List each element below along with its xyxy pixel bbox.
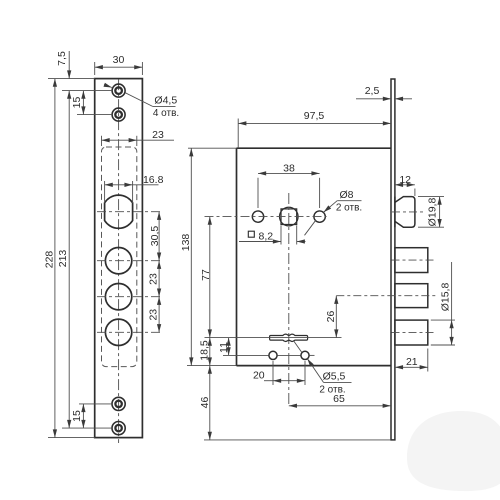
svg-text:23: 23 (152, 129, 164, 141)
svg-text:15: 15 (71, 97, 83, 109)
svg-text:Ø5,5: Ø5,5 (323, 371, 346, 383)
svg-text:97,5: 97,5 (304, 110, 325, 122)
svg-text:30: 30 (113, 54, 125, 66)
svg-text:21: 21 (406, 356, 418, 368)
svg-text:Ø15,8: Ø15,8 (439, 283, 451, 312)
svg-text:12: 12 (399, 174, 411, 186)
svg-text:4 отв.: 4 отв. (153, 108, 179, 119)
svg-text:30,5: 30,5 (149, 226, 161, 247)
svg-text:15: 15 (71, 410, 83, 422)
svg-text:2,5: 2,5 (365, 85, 380, 97)
svg-text:Ø8: Ø8 (339, 189, 353, 201)
svg-text:228: 228 (44, 251, 56, 269)
svg-text:11: 11 (218, 342, 230, 353)
svg-text:18,5: 18,5 (198, 340, 210, 361)
svg-text:38: 38 (283, 163, 295, 175)
svg-text:Ø19,8: Ø19,8 (427, 198, 439, 227)
svg-text:23: 23 (148, 309, 160, 321)
svg-text:8,2: 8,2 (259, 230, 274, 242)
svg-text:26: 26 (325, 311, 337, 323)
svg-text:65: 65 (333, 393, 345, 405)
svg-text:20: 20 (253, 370, 265, 382)
svg-text:46: 46 (199, 397, 211, 409)
svg-text:77: 77 (200, 269, 212, 281)
svg-text:138: 138 (180, 234, 192, 252)
svg-text:Ø4,5: Ø4,5 (154, 95, 177, 107)
svg-text:213: 213 (57, 250, 69, 268)
svg-text:7,5: 7,5 (56, 51, 68, 66)
svg-text:23: 23 (148, 273, 160, 285)
svg-text:2 отв.: 2 отв. (336, 203, 362, 214)
svg-text:16.8: 16.8 (143, 174, 164, 186)
